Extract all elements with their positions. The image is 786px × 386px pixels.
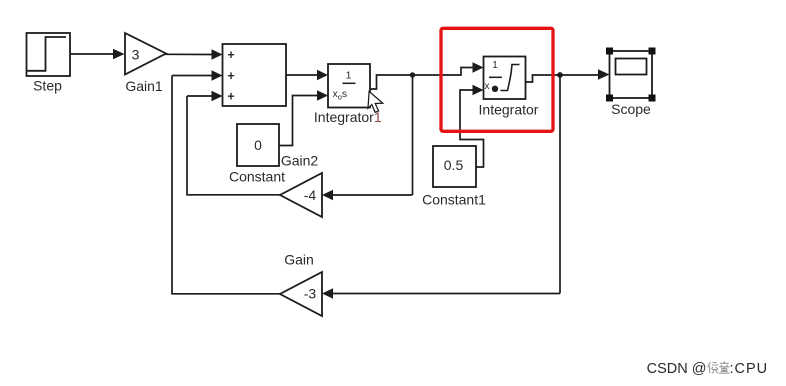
svg-text:Gain1: Gain1 — [125, 78, 163, 94]
svg-text:-4: -4 — [304, 187, 317, 203]
svg-text:+: + — [227, 69, 234, 83]
svg-text:Step: Step — [33, 77, 62, 93]
svg-text:Integrator: Integrator — [479, 102, 539, 118]
svg-text:+: + — [227, 90, 234, 104]
svg-text:Gain2: Gain2 — [281, 152, 319, 168]
svg-text:Constant: Constant — [229, 169, 285, 185]
svg-text:x: x — [485, 81, 490, 92]
svg-text:+: + — [227, 48, 234, 62]
svg-text:CSDN @: CSDN @ — [647, 361, 707, 377]
svg-text:-3: -3 — [304, 285, 317, 301]
svg-text:1: 1 — [346, 70, 352, 82]
svg-text:0: 0 — [254, 137, 262, 153]
svg-text::CPU: :CPU — [730, 361, 769, 377]
svg-text:1: 1 — [492, 60, 498, 71]
svg-text:0.5: 0.5 — [444, 157, 464, 173]
svg-text:Integrator1: Integrator1 — [314, 109, 382, 125]
svg-text:Gain: Gain — [284, 252, 314, 268]
svg-text:Constant1: Constant1 — [422, 192, 486, 208]
svg-text:Scope: Scope — [611, 101, 651, 117]
svg-text:3: 3 — [132, 47, 140, 63]
